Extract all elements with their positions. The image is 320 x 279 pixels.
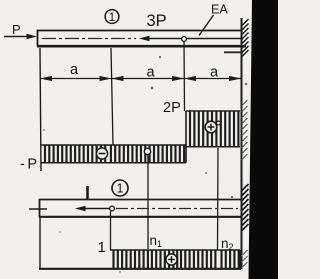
N diagram 1 : strip hatch bbox=[45, 146, 184, 163]
dimension line bbox=[40, 78, 241, 80]
node circle on strip bbox=[144, 148, 150, 154]
svg-text:-P: -P bbox=[20, 157, 40, 173]
force P arrow bbox=[4, 34, 37, 40]
svg-text:1: 1 bbox=[117, 182, 124, 196]
EA leader line bbox=[199, 15, 214, 36]
extension line left bbox=[40, 48, 41, 171]
bar 2 (bottom rod) bbox=[39, 200, 241, 218]
bar 2 centerline left tick bbox=[29, 208, 47, 210]
wall hatching (bottom right, diagram 2) bbox=[242, 250, 248, 268]
svg-text:1: 1 bbox=[109, 12, 115, 24]
svg-text:EA: EA bbox=[211, 3, 228, 17]
bar 1 (top rod) bbox=[37, 31, 246, 47]
node (unit force application) bbox=[110, 206, 115, 211]
diagram 2 axis bbox=[39, 268, 241, 270]
plus sign circle (diagram 2) bbox=[166, 254, 177, 265]
extension line at a2/a3 bbox=[183, 41, 186, 111]
wall hatching (mid, first diagram) bbox=[242, 100, 248, 160]
svg-text:1: 1 bbox=[98, 239, 106, 256]
N diagram 1 : negative strip outline bbox=[41, 145, 186, 163]
reference line x=218 down to diagram 2 bbox=[217, 148, 220, 250]
svg-text:3P: 3P bbox=[147, 12, 167, 30]
plus sign circle bbox=[205, 121, 220, 133]
node (3P application point) bbox=[182, 37, 187, 42]
svg-text:P: P bbox=[12, 22, 21, 37]
scan speckles bbox=[43, 56, 247, 273]
N diagram 1 : positive box outline bbox=[186, 111, 240, 163]
section mark 1 (bottom) bbox=[112, 180, 128, 196]
bar 1 centerline bbox=[42, 38, 136, 40]
strip 2 top bbox=[110, 249, 240, 251]
extension line at a1/a2 bbox=[111, 48, 113, 145]
svg-text:2P: 2P bbox=[163, 100, 181, 116]
reference line from node 2 to strip 2 bbox=[110, 211, 112, 250]
label 1 (unit force) bbox=[86, 186, 89, 199]
minus sign circle bbox=[96, 148, 107, 159]
svg-text:a: a bbox=[210, 65, 219, 81]
dimension arrowheads bbox=[40, 76, 241, 81]
unit force arrow bbox=[75, 206, 111, 212]
diagram 2 left edge bbox=[39, 217, 41, 268]
force 3P arrow bbox=[139, 36, 243, 42]
strip 2 hatch bbox=[114, 251, 239, 269]
bar 1 bottom double stroke near wall bbox=[224, 51, 243, 53]
black scan band (right edge) bbox=[249, 0, 279, 279]
wall hatching (top bar) bbox=[242, 19, 249, 57]
bar 2 centerline bbox=[116, 208, 238, 210]
wall line (right support) bbox=[241, 18, 243, 269]
section mark 1 (top) bbox=[105, 10, 119, 24]
N diagram 1 : box hatch bbox=[190, 112, 238, 147]
wall hatching (bar 2) bbox=[242, 184, 249, 231]
strip 2 right edge bbox=[239, 250, 241, 269]
reference line from node down to diagram 2 bbox=[147, 155, 149, 249]
svg-text:a: a bbox=[147, 65, 156, 81]
svg-text:a: a bbox=[70, 62, 79, 78]
